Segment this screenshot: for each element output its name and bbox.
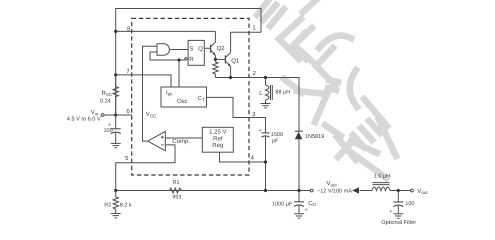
svg-text:R: R — [189, 56, 194, 63]
diode 1N5819 — [298, 139, 300, 191]
node filter cap junction — [397, 189, 400, 192]
node Q2 emitter junction — [214, 58, 217, 61]
ground inductor L — [261, 104, 271, 108]
svg-text:R2: R2 — [104, 203, 111, 209]
wire oscillator to R input — [178, 60, 180, 87]
svg-text:Optional Filter: Optional Filter — [381, 219, 416, 225]
resistor Q2 emitter — [213, 59, 218, 77]
regulator 1.25V box — [202, 127, 233, 152]
oscillator box — [161, 87, 207, 107]
wire pin 7 to Ipk — [116, 75, 171, 87]
wire comparator - to pin 5 — [116, 145, 175, 191]
wire oscillator to AND lower input — [150, 52, 185, 60]
svg-text:−12 V/100 mA: −12 V/100 mA — [317, 189, 352, 195]
svg-text:0.24: 0.24 — [100, 99, 111, 105]
svg-text:pF: pF — [272, 139, 279, 145]
wire Vin to pin 6 — [104, 114, 132, 116]
svg-text:1.0 µH: 1.0 µH — [374, 173, 390, 179]
wire Q to Q2 base — [204, 47, 210, 49]
terminal -12V output — [310, 189, 313, 192]
wire pin 2 rail — [215, 78, 299, 132]
svg-text:100: 100 — [104, 128, 113, 134]
node R2 junction — [114, 189, 117, 192]
capacitor 100uF input — [115, 115, 117, 129]
node Q1 emitter on rail — [229, 76, 232, 79]
resistor R1 953 — [170, 188, 182, 193]
svg-text:Q2: Q2 — [217, 45, 226, 52]
node pin4 on rail — [264, 189, 267, 192]
node diode on rail — [297, 189, 300, 192]
svg-text:1500: 1500 — [271, 132, 283, 138]
wire arrow to filter inductor — [360, 190, 373, 192]
capacitor 1500pF timing — [262, 132, 270, 134]
ground CO — [294, 214, 304, 218]
svg-text:+: + — [305, 208, 308, 214]
wire Q2 emitter to Q1 base — [215, 58, 225, 60]
node Vin junction — [114, 113, 117, 116]
node pin8 junction — [114, 30, 117, 33]
capacitor 1000uF CO — [298, 191, 300, 202]
svg-text:88 µH: 88 µH — [275, 90, 290, 96]
svg-text:Ref: Ref — [213, 135, 223, 142]
wire pin 8 to Q2 collector — [116, 30, 216, 32]
ground input cap — [111, 143, 121, 147]
wire output rail — [116, 190, 311, 192]
svg-text:+: + — [389, 209, 392, 215]
svg-text:1000 µF: 1000 µF — [272, 202, 293, 208]
svg-text:1.25 V: 1.25 V — [209, 129, 226, 136]
svg-text:1N5819: 1N5819 — [305, 134, 325, 140]
wire pin 1 to Q1 collector — [231, 31, 261, 33]
svg-text:100: 100 — [405, 201, 414, 207]
arrow to filter — [352, 187, 359, 193]
transistor Q1 — [225, 32, 230, 77]
node pin4 cap junction — [264, 160, 267, 163]
svg-text:+: + — [259, 128, 262, 134]
AND gate — [157, 44, 170, 55]
ground filter cap — [393, 214, 403, 218]
latch SR — [188, 40, 204, 65]
svg-text:R1: R1 — [173, 180, 180, 186]
node inductor tap — [264, 76, 267, 79]
wire comparator output to AND gate — [143, 46, 158, 141]
wire AND output to S — [170, 49, 188, 51]
watermark — [257, 0, 396, 178]
svg-text:Comp.: Comp. — [172, 138, 190, 145]
ground R2 — [111, 213, 121, 217]
svg-text:4.5 V to 6.0 V: 4.5 V to 6.0 V — [67, 117, 101, 123]
svg-text:S: S — [189, 46, 193, 53]
wire inductor to Vout — [390, 190, 411, 192]
node pin7 junction — [114, 73, 117, 76]
capacitor 100 filter — [397, 191, 399, 203]
node osc-R junction — [177, 58, 180, 61]
terminal Vin — [101, 114, 104, 117]
inductor 1.0uH filter — [372, 183, 390, 191]
IC dashed boundary — [132, 18, 249, 175]
resistor Rsc — [113, 75, 118, 115]
svg-text:Reg: Reg — [212, 142, 223, 149]
wire ref to comparator + — [165, 137, 202, 139]
svg-text:Osc: Osc — [177, 98, 188, 105]
svg-text:8.2 k: 8.2 k — [120, 203, 132, 209]
resistor R2 8.2k — [113, 191, 118, 214]
wire CT to pin 3 — [207, 97, 266, 132]
svg-text:Q1: Q1 — [231, 57, 240, 64]
svg-text:953: 953 — [172, 195, 181, 201]
inductor L 88uH — [266, 78, 273, 104]
wire top feedback rail — [116, 9, 261, 116]
wire pin 4 — [220, 152, 266, 190]
terminal Vout — [411, 189, 414, 192]
svg-text:Q: Q — [198, 46, 203, 53]
transistor Q2 — [211, 31, 216, 59]
comparator U comp — [148, 131, 166, 150]
